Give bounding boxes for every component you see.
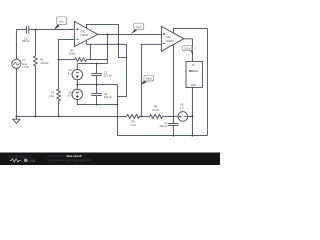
svg-text:9 V: 9 V bbox=[68, 94, 72, 98]
svg-text:9 V: 9 V bbox=[68, 71, 72, 75]
wire R2 branch bbox=[34, 30, 36, 117]
svg-text:VOut: VOut bbox=[184, 47, 190, 51]
wire V6 bottom bbox=[77, 100, 117, 105]
flag VOut bbox=[183, 46, 194, 55]
voltage source V5 bbox=[178, 112, 188, 122]
svg-text:amplebierene / bias-circuit: amplebierene / bias-circuit bbox=[47, 154, 81, 158]
svg-text:LM324: LM324 bbox=[81, 33, 89, 37]
wire battery top bbox=[77, 63, 107, 65]
wire V5 right bbox=[188, 115, 193, 117]
wire R6 to V5 bbox=[162, 115, 178, 117]
wire bottom rail bbox=[117, 135, 207, 137]
flag Vout1 bbox=[131, 23, 145, 34]
flag Vin bbox=[54, 17, 67, 30]
wire OA1 minus input bbox=[59, 39, 75, 89]
capacitor C4 bbox=[91, 85, 102, 105]
wire mid drop column bbox=[116, 85, 118, 136]
capacitor C2 bbox=[26, 26, 28, 34]
capacitor C6 bbox=[168, 116, 178, 135]
resistor R4 bbox=[75, 58, 87, 62]
svg-text:220 µF: 220 µF bbox=[160, 124, 168, 128]
ground symbol bbox=[13, 116, 20, 123]
wire rail R5-R6 bbox=[139, 115, 149, 117]
capacitor C3 bbox=[91, 64, 102, 85]
svg-text:V2: V2 bbox=[22, 58, 26, 62]
voltage source V3 bbox=[72, 69, 82, 79]
svg-text:Vout: Vout bbox=[136, 25, 141, 29]
op-amp OA2 bbox=[161, 26, 183, 51]
svg-text:1 kΩ: 1 kΩ bbox=[130, 123, 135, 127]
wire OA2 V+ pin bbox=[173, 29, 207, 33]
wire ground rail left bbox=[16, 115, 126, 117]
wire OA1 V+ pin bbox=[86, 24, 118, 28]
wire 126 column bbox=[117, 44, 126, 96]
component MEGA box bbox=[186, 61, 202, 87]
wire riser Vbias bbox=[141, 44, 161, 116]
svg-text:MEGA: MEGA bbox=[189, 69, 199, 73]
labels bbox=[22, 30, 199, 128]
resistor R2 bbox=[34, 56, 38, 67]
wire V2 branch bbox=[15, 30, 17, 117]
svg-text:220 µF: 220 µF bbox=[104, 73, 112, 77]
wire OA1 V- pin bbox=[85, 41, 87, 45]
wire right riser bbox=[206, 29, 208, 136]
svg-text:R2: R2 bbox=[40, 57, 44, 61]
wire top input bbox=[16, 29, 74, 31]
svg-text:5 V: 5 V bbox=[180, 105, 184, 109]
resistor R5 bbox=[127, 114, 140, 118]
svg-text:10 kΩ: 10 kΩ bbox=[152, 108, 159, 112]
voltage source V2 (sine) bbox=[12, 59, 21, 68]
wire OA2 minus horizontal bbox=[86, 43, 126, 45]
footer bar bbox=[0, 153, 220, 166]
resistor R3 bbox=[57, 89, 61, 116]
wire battery mid bbox=[77, 84, 117, 86]
wire R4 left bbox=[59, 59, 75, 61]
svg-text:20 kΩ: 20 kΩ bbox=[69, 52, 76, 56]
voltage source V6 bbox=[72, 89, 82, 99]
op-amp OA1 bbox=[74, 21, 97, 46]
svg-text:sine: sine bbox=[22, 62, 27, 66]
svg-text:1 kHz: 1 kHz bbox=[22, 65, 29, 69]
flag Vbias bbox=[141, 75, 154, 85]
svg-text:Vin: Vin bbox=[60, 20, 64, 24]
svg-text:Vbias: Vbias bbox=[146, 78, 153, 81]
svg-text:LAB: LAB bbox=[28, 159, 36, 163]
svg-text:GND: GND bbox=[191, 85, 196, 87]
svg-text:100 kΩ: 100 kΩ bbox=[40, 61, 48, 65]
svg-text:100 nF: 100 nF bbox=[22, 39, 30, 43]
wire OA1 output bbox=[98, 33, 162, 35]
wire V3 stem bbox=[76, 64, 78, 90]
svg-text:OA1: OA1 bbox=[81, 30, 87, 34]
svg-text:http://circuitlab.com/c/y9gawp: http://circuitlab.com/c/y9gawpk4znf8e bbox=[47, 158, 91, 162]
wire R4 right to battery top bbox=[87, 60, 108, 64]
wire feedback riser A bbox=[106, 34, 108, 59]
wire OA2 V- pin bbox=[172, 45, 174, 117]
wire drop D bbox=[89, 44, 91, 59]
svg-text:P1: P1 bbox=[192, 65, 196, 67]
wire line B jog bbox=[118, 24, 126, 57]
svg-text:220 µF: 220 µF bbox=[104, 95, 112, 99]
wire OA2 output bbox=[184, 39, 193, 62]
svg-text:LM324: LM324 bbox=[166, 39, 174, 43]
wire MEGA gnd bbox=[191, 87, 193, 135]
svg-text:1 kΩ: 1 kΩ bbox=[49, 94, 54, 98]
resistor R6 bbox=[150, 114, 163, 118]
svg-text:OA2: OA2 bbox=[166, 35, 172, 39]
